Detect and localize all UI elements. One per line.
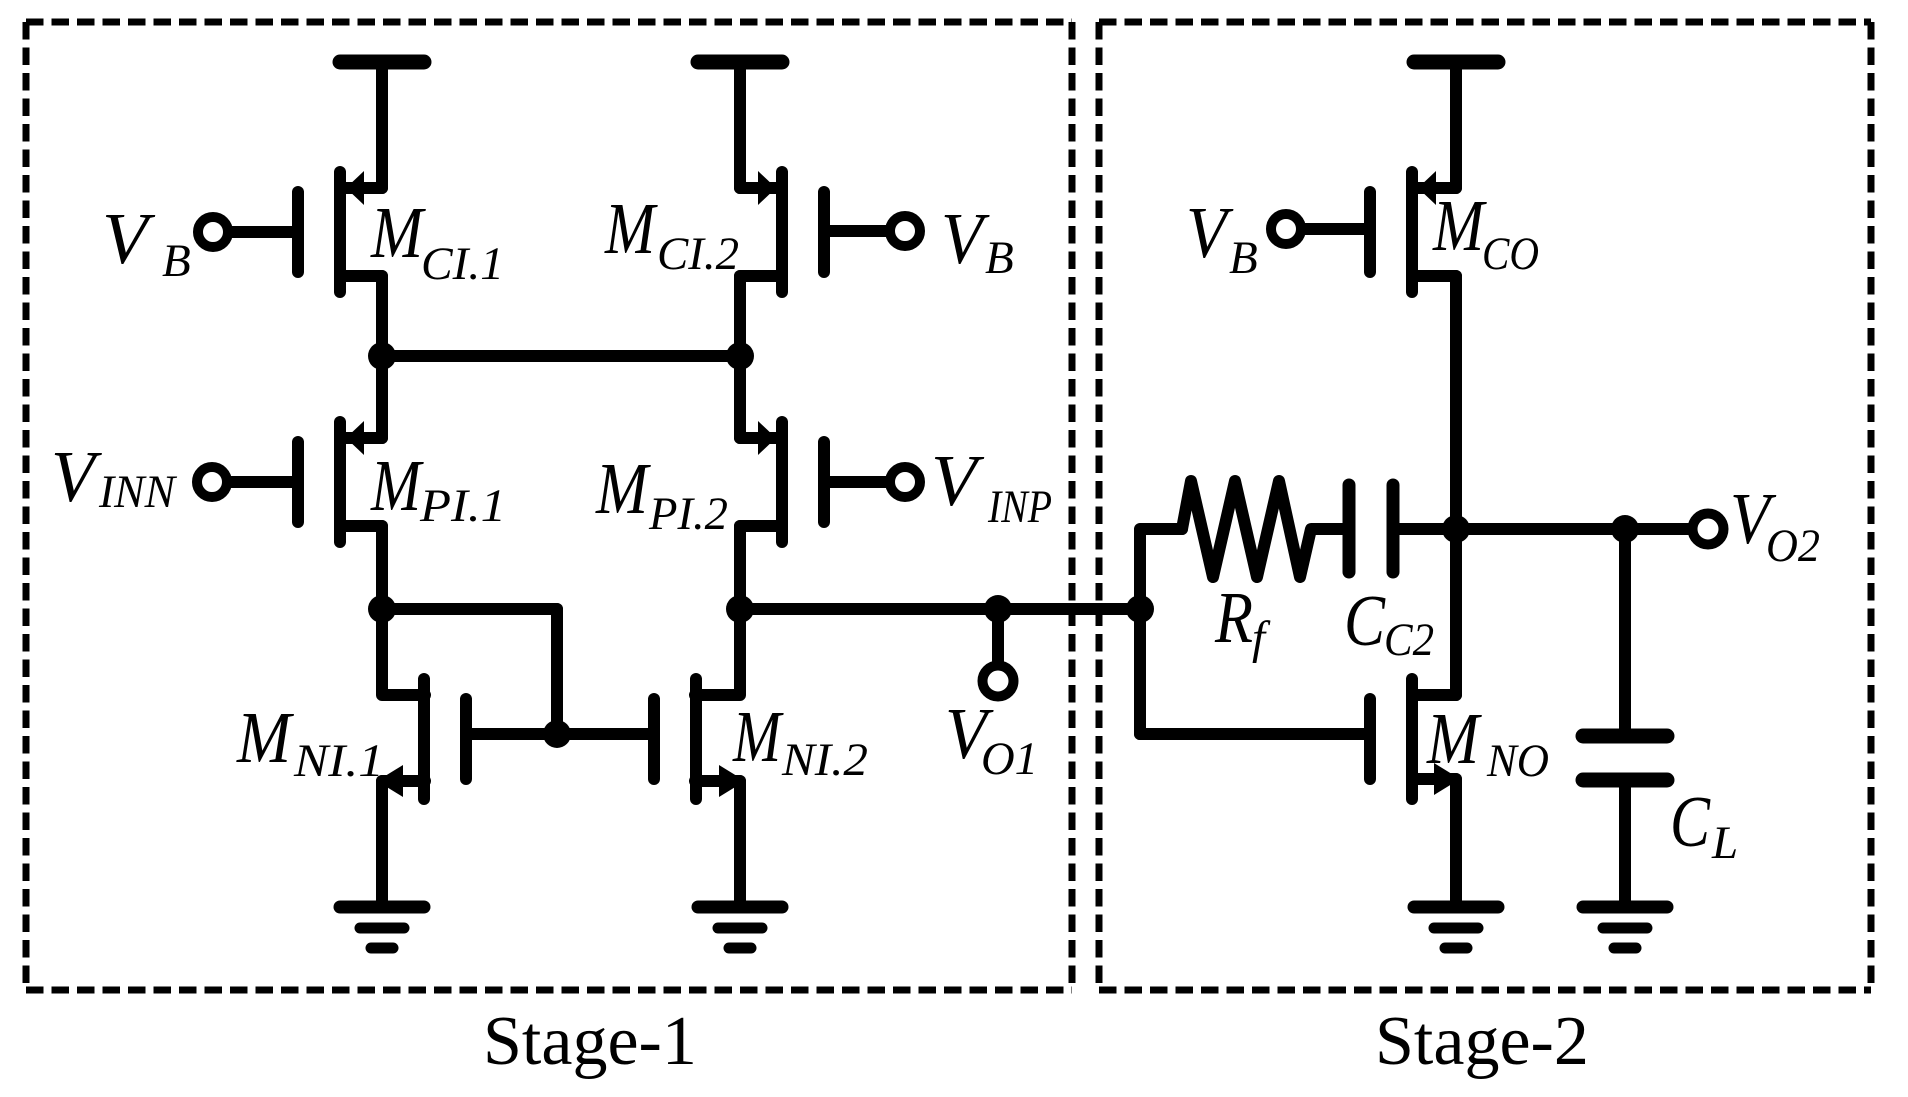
svg-text:NO: NO: [1486, 735, 1549, 787]
svg-text:NI.1: NI.1: [293, 735, 384, 787]
svg-text:O2: O2: [1766, 520, 1820, 572]
svg-text:M: M: [732, 696, 784, 777]
svg-text:V: V: [102, 198, 156, 279]
svg-text:V: V: [1186, 192, 1234, 273]
svg-text:C: C: [1344, 580, 1386, 661]
svg-text:R: R: [1214, 577, 1253, 658]
svg-text:CI.2: CI.2: [657, 228, 739, 280]
svg-text:PI.1: PI.1: [419, 480, 506, 532]
svg-text:M: M: [1432, 185, 1487, 266]
svg-text:CO: CO: [1482, 228, 1539, 280]
svg-text:M: M: [236, 697, 295, 778]
svg-text:Stage-2: Stage-2: [1375, 1003, 1589, 1080]
svg-text:INP: INP: [987, 481, 1052, 533]
svg-text:M: M: [604, 188, 658, 269]
svg-text:C2: C2: [1384, 614, 1434, 666]
svg-text:V: V: [941, 198, 990, 279]
svg-text:V: V: [51, 436, 102, 517]
svg-text:V: V: [931, 440, 985, 521]
svg-text:Stage-1: Stage-1: [483, 1003, 697, 1080]
svg-text:C: C: [1670, 781, 1711, 862]
svg-text:B: B: [1229, 232, 1258, 284]
svg-text:M: M: [370, 445, 424, 526]
svg-text:O1: O1: [981, 733, 1038, 785]
svg-text:L: L: [1711, 817, 1738, 869]
svg-text:M: M: [370, 192, 426, 273]
svg-text:CI.1: CI.1: [421, 238, 504, 290]
svg-text:M: M: [1426, 698, 1482, 779]
svg-text:NI.2: NI.2: [781, 734, 868, 786]
svg-text:B: B: [162, 235, 191, 287]
svg-text:INN: INN: [98, 466, 178, 518]
svg-text:B: B: [985, 232, 1014, 284]
svg-text:PI.2: PI.2: [648, 488, 728, 540]
svg-text:f: f: [1252, 612, 1271, 664]
svg-text:M: M: [595, 448, 651, 529]
